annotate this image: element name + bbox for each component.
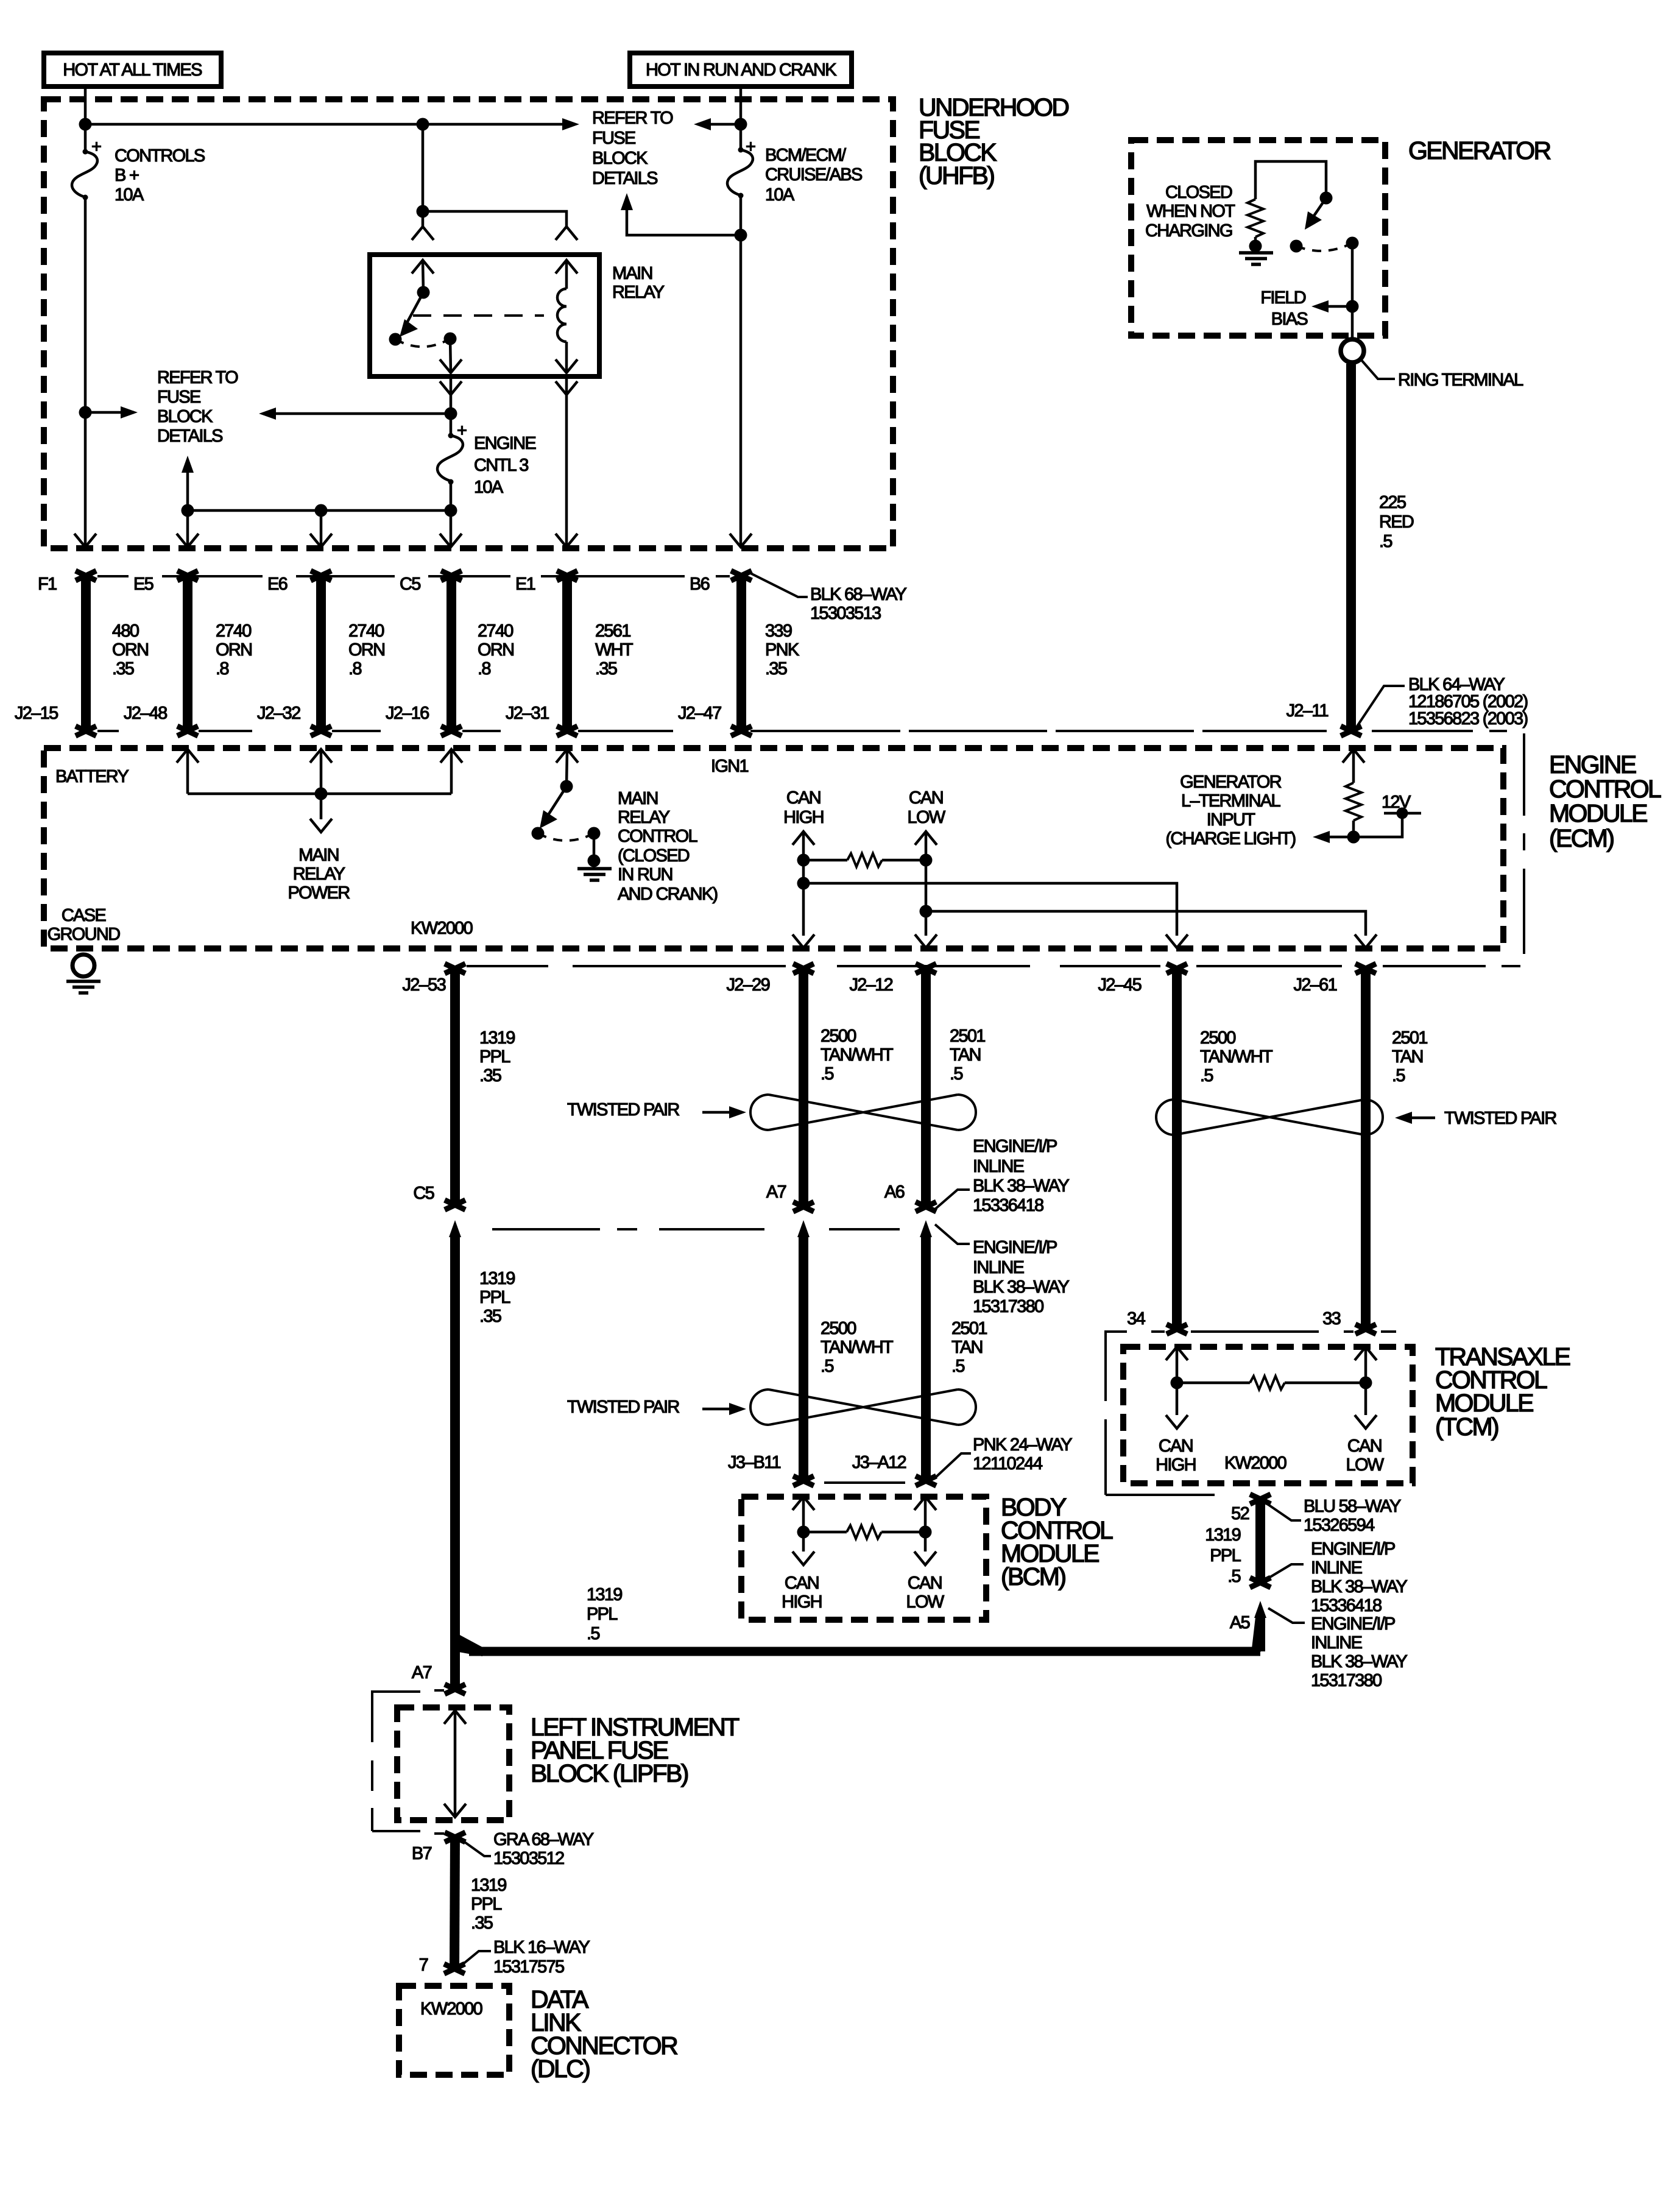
svg-text:.5: .5 — [1227, 1567, 1240, 1586]
wire bus y204 to right arrow — [85, 123, 563, 126]
svg-text:J2–48: J2–48 — [124, 704, 167, 723]
svg-text:12110244: 12110244 — [973, 1454, 1043, 1474]
svg-text:DETAILS: DETAILS — [157, 426, 223, 446]
termination resistor ECM — [803, 853, 926, 867]
svg-text:TAN/WHT: TAN/WHT — [821, 1045, 894, 1065]
main relay control label — [618, 789, 717, 904]
svg-text:339: 339 — [765, 621, 792, 641]
svg-text:A6: A6 — [884, 1182, 905, 1202]
svg-text:E1: E1 — [515, 574, 535, 594]
refer to fuse block details text (top) — [592, 108, 673, 188]
svg-text:GROUND: GROUND — [48, 925, 120, 944]
svg-text:BLK 68–WAY: BLK 68–WAY — [810, 585, 906, 604]
svg-text:J2–47: J2–47 — [678, 704, 721, 723]
relay pin chevrons bottom — [440, 359, 462, 373]
svg-text:TAN/WHT: TAN/WHT — [1200, 1047, 1273, 1067]
svg-text:2740: 2740 — [216, 621, 251, 641]
node relay output — [445, 408, 457, 420]
connector bar B6/J2-47 — [731, 571, 752, 736]
svg-text:PPL: PPL — [479, 1288, 510, 1307]
svg-text:POWER: POWER — [288, 883, 350, 903]
connector X A7 — [445, 1684, 465, 1694]
svg-text:1319: 1319 — [471, 1876, 506, 1895]
connector label PNK 24-WAY 12110244 — [934, 1435, 1072, 1479]
node bus junction — [315, 788, 328, 800]
wire C5 exit — [450, 510, 453, 547]
BCM down chevrons — [792, 1552, 814, 1565]
BCM CAN stems — [803, 1497, 925, 1552]
svg-text:BLOCK (LIPFB): BLOCK (LIPFB) — [531, 1759, 688, 1787]
svg-text:.35: .35 — [595, 659, 617, 679]
wire below resistor — [1352, 821, 1355, 837]
svg-text:225: 225 — [1379, 493, 1406, 512]
svg-text:.8: .8 — [478, 659, 490, 679]
BCM CAN chevrons — [792, 1497, 814, 1510]
svg-text:A7: A7 — [766, 1182, 786, 1202]
svg-text:ORN: ORN — [216, 640, 252, 660]
relay contact dot common — [444, 333, 457, 345]
TCM bracket — [1106, 1332, 1215, 1495]
svg-text:IN RUN: IN RUN — [618, 865, 672, 884]
svg-text:ORN: ORN — [478, 640, 514, 660]
svg-text:TWISTED PAIR: TWISTED PAIR — [1444, 1109, 1556, 1128]
svg-text:AND CRANK): AND CRANK) — [618, 884, 717, 904]
svg-text:J2–29: J2–29 — [726, 975, 769, 995]
BCM CAN LOW label — [906, 1573, 945, 1612]
wire label 1319 PPL .35 (lower) — [479, 1269, 515, 1326]
svg-text:FIELD: FIELD — [1260, 288, 1305, 308]
connector bar J2-12 — [916, 964, 936, 1212]
UHFB label — [919, 93, 1068, 189]
svg-text:J2–45: J2–45 — [1098, 975, 1141, 995]
connector label ENGINE/I/P INLINE BLK 38-WAY 15317380 — [935, 1224, 1069, 1316]
leader BLK 64-WAY — [1357, 686, 1405, 726]
svg-text:CLOSED: CLOSED — [1165, 183, 1232, 202]
svg-text:15326594: 15326594 — [1304, 1516, 1375, 1535]
svg-text:15356823 (2003): 15356823 (2003) — [1408, 709, 1527, 729]
svg-text:CONTROLS: CONTROLS — [115, 146, 205, 166]
wire label 1319 PPL .5 (52) — [1205, 1525, 1241, 1586]
case ground label — [48, 906, 120, 944]
generator switch blade arrow — [1309, 198, 1326, 223]
svg-text:A5: A5 — [1230, 1613, 1250, 1633]
CAN HIGH chevron up — [792, 831, 814, 845]
connector label GRA 68-WAY 15303512 — [463, 1830, 594, 1868]
svg-text:TWISTED PAIR: TWISTED PAIR — [567, 1397, 679, 1417]
arrow to fuse block details (left, from BCM feed) — [694, 118, 711, 130]
TCM CAN LOW label — [1346, 1436, 1385, 1475]
svg-text:ENGINE/I/P: ENGINE/I/P — [1311, 1539, 1395, 1559]
inline connector arrow A6 — [916, 1220, 936, 1486]
IGN1 input chevron — [556, 749, 578, 763]
twisted pair symbol 3 — [750, 1389, 976, 1425]
svg-text:FUSE: FUSE — [157, 387, 201, 407]
TCM CAN stems — [1177, 1347, 1366, 1415]
svg-text:PPL: PPL — [1210, 1546, 1241, 1566]
svg-text:ORN: ORN — [112, 640, 148, 660]
L-terminal resistor — [1346, 783, 1361, 821]
wire to main relay feed — [422, 124, 425, 227]
svg-text:KW2000: KW2000 — [420, 1999, 482, 2019]
LIPFB internal arrow — [444, 1710, 466, 1817]
TCM label — [1435, 1343, 1570, 1441]
svg-text:REFER TO: REFER TO — [157, 368, 238, 387]
svg-text:DETAILS: DETAILS — [592, 169, 658, 188]
svg-text:J2–31: J2–31 — [506, 704, 549, 723]
wire label 2501 TAN .5 — [950, 1026, 985, 1084]
inline connector arrow C5/A7 wire — [449, 1220, 461, 1689]
svg-text:CHARGING: CHARGING — [1145, 221, 1232, 241]
svg-text:.5: .5 — [950, 1064, 962, 1084]
svg-text:.35: .35 — [479, 1066, 501, 1086]
leader BLK 68-WAY — [749, 573, 808, 597]
field bias junction dot — [1346, 300, 1359, 313]
svg-text:(UHFB): (UHFB) — [919, 161, 994, 189]
svg-text:.5: .5 — [1200, 1066, 1213, 1086]
svg-text:INLINE: INLINE — [1311, 1558, 1363, 1578]
charge light arrow — [1317, 836, 1354, 839]
twisted pair symbol 2 (right) — [1156, 1100, 1383, 1135]
svg-text:INLINE: INLINE — [1311, 1633, 1363, 1653]
J2-61 exit chevron — [1355, 934, 1377, 948]
svg-text:MAIN: MAIN — [618, 789, 658, 808]
generator ground — [1239, 253, 1273, 264]
data link connector DLC dashed box — [399, 1986, 509, 2075]
svg-text:15303512: 15303512 — [493, 1849, 564, 1868]
svg-text:J2–16: J2–16 — [386, 704, 429, 723]
node bus mid — [315, 504, 328, 517]
svg-text:C5: C5 — [400, 574, 420, 594]
generator switch contact dot — [1290, 240, 1303, 253]
wire label 1319 PPL .35 — [479, 1028, 515, 1086]
wire E6 exit — [320, 510, 323, 547]
relay switch input stem — [423, 260, 423, 292]
svg-text:15303513: 15303513 — [810, 604, 881, 623]
wire label 2561 WHT .35 — [595, 621, 634, 679]
connector bar 52 — [1250, 1494, 1271, 1587]
svg-text:INPUT: INPUT — [1207, 810, 1255, 830]
svg-text:CAN: CAN — [1159, 1436, 1193, 1456]
svg-text:ENGINE/I/P: ENGINE/I/P — [973, 1137, 1057, 1156]
svg-text:1319: 1319 — [479, 1028, 515, 1048]
main relay power label — [288, 846, 350, 903]
field bias label — [1260, 288, 1308, 329]
svg-text:15317575: 15317575 — [493, 1957, 564, 1977]
wire coil to E1 — [565, 376, 568, 547]
svg-text:GENERATOR: GENERATOR — [1180, 772, 1281, 792]
connector bar C5/J2-16 — [441, 571, 462, 736]
battery bus wires — [188, 749, 451, 819]
CAN LOW chevron up — [915, 831, 937, 845]
L-terminal stem — [1352, 749, 1355, 783]
connector bar E6/J2-32 — [311, 571, 331, 736]
svg-text:HIGH: HIGH — [783, 808, 824, 827]
svg-text:INLINE: INLINE — [973, 1258, 1025, 1277]
node ign feed junction — [735, 118, 747, 131]
IGN1 switch pivot dot — [560, 780, 573, 793]
svg-text:+: + — [91, 137, 101, 157]
J2-45 exit chevron — [1166, 934, 1188, 948]
arrow up to refer text — [621, 193, 633, 210]
generator switch dot top — [1320, 192, 1333, 205]
svg-text:KW2000: KW2000 — [1224, 1453, 1286, 1473]
fuse BCM/ECM/CRUISE/ABS 10A — [727, 137, 755, 199]
LIPFB bracket — [372, 1692, 420, 1831]
svg-text:15317380: 15317380 — [1311, 1671, 1382, 1690]
TCM down chevrons — [1166, 1415, 1188, 1428]
ground node dot — [588, 855, 601, 867]
ring terminal leader — [1361, 359, 1395, 379]
svg-text:12V: 12V — [1382, 793, 1411, 812]
svg-text:.35: .35 — [471, 1913, 493, 1933]
svg-text:PPL: PPL — [471, 1894, 502, 1914]
svg-text:CNTL 3: CNTL 3 — [474, 456, 528, 475]
wire label 1319 PPL .5 (horizontal) — [587, 1585, 622, 1643]
connector bar J2-61 — [1355, 964, 1376, 1334]
main relay label — [612, 264, 665, 302]
relay switch blade arrow — [403, 292, 423, 330]
BCM node dots — [797, 1526, 810, 1539]
fuse CONTROLS B+ 10A — [72, 137, 101, 200]
svg-text:FUSE: FUSE — [592, 129, 636, 148]
case ground symbol — [66, 955, 101, 993]
svg-text:15317380: 15317380 — [973, 1297, 1043, 1316]
svg-text:2501: 2501 — [950, 1026, 985, 1046]
svg-text:IGN1: IGN1 — [711, 757, 748, 776]
battery bus chevrons into ECM — [177, 749, 199, 763]
svg-text:ORN: ORN — [348, 640, 384, 660]
svg-text:(TCM): (TCM) — [1435, 1413, 1498, 1441]
connector label BLK 68-WAY 15303513 — [810, 585, 906, 623]
svg-text:480: 480 — [112, 621, 139, 641]
body control module BCM dashed box — [741, 1497, 986, 1620]
svg-text:BLK 38–WAY: BLK 38–WAY — [973, 1176, 1069, 1196]
connector bar E1/J2-31 — [557, 571, 577, 736]
ECM label — [1549, 750, 1661, 852]
svg-text:ENGINE: ENGINE — [474, 434, 536, 453]
twisted pair label 1 — [567, 1100, 746, 1120]
node bus left — [182, 504, 194, 517]
left instrument panel fuse block dashed box — [397, 1707, 509, 1820]
svg-text:PNK 24–WAY: PNK 24–WAY — [973, 1435, 1072, 1455]
svg-text:HOT AT ALL TIMES: HOT AT ALL TIMES — [63, 60, 202, 80]
svg-text:1319: 1319 — [1205, 1525, 1240, 1545]
BCM CAN HIGH label — [782, 1573, 822, 1612]
svg-text:2500: 2500 — [1200, 1028, 1235, 1048]
svg-text:1319: 1319 — [479, 1269, 515, 1288]
connector face line row2 top — [467, 965, 1520, 967]
wire below BCM fuse — [739, 196, 743, 547]
relay actuation dashed link — [413, 314, 544, 317]
svg-text:HOT IN RUN AND CRANK: HOT IN RUN AND CRANK — [646, 60, 837, 80]
wire label 480 ORN .35 — [112, 621, 148, 679]
transaxle control module TCM dashed box — [1123, 1347, 1413, 1483]
wire E5 exit — [186, 510, 189, 547]
connector label BLK 16-WAY 15317575 — [462, 1938, 590, 1977]
ring terminal — [1341, 339, 1364, 362]
svg-text:2500: 2500 — [821, 1026, 856, 1046]
connector chevrons above main relay — [412, 227, 434, 240]
BCM label — [1001, 1493, 1113, 1590]
relay switch pivot dot — [417, 286, 430, 299]
wire label 2740 ORN .8 (E6) — [348, 621, 384, 679]
svg-text:33: 33 — [1322, 1309, 1340, 1329]
svg-text:ENGINE/I/P: ENGINE/I/P — [1311, 1614, 1395, 1634]
svg-text:J3–B11: J3–B11 — [728, 1453, 781, 1472]
wire — [697, 123, 741, 126]
wire to ground — [1254, 237, 1257, 246]
svg-text:TAN: TAN — [950, 1045, 981, 1065]
svg-text:(CHARGE LIGHT): (CHARGE LIGHT) — [1165, 829, 1295, 849]
svg-text:J2–53: J2–53 — [402, 975, 445, 995]
connector face line bottom row1 — [97, 730, 1507, 732]
wire label 225 RED .5 — [1379, 493, 1414, 551]
node at y386 — [735, 229, 747, 242]
svg-text:A7: A7 — [412, 1663, 432, 1682]
svg-text:F1: F1 — [38, 574, 57, 594]
CAN HIGH exit chevron — [792, 934, 814, 948]
engine control module ECM dashed box — [44, 748, 1503, 948]
svg-text:10A: 10A — [474, 478, 504, 497]
wire label 2740 ORN .8 (E5) — [216, 621, 252, 679]
connector bar J2-45 — [1166, 964, 1187, 1334]
svg-text:E5: E5 — [133, 574, 154, 594]
svg-text:2501: 2501 — [951, 1319, 987, 1338]
svg-text:2561: 2561 — [595, 621, 630, 641]
generator L-terminal input label — [1165, 772, 1295, 849]
connector bar J2-53 — [445, 964, 465, 1210]
svg-text:BIAS: BIAS — [1271, 309, 1308, 329]
svg-text:.5: .5 — [951, 1357, 964, 1376]
connector face line A7 — [434, 1689, 444, 1692]
relay pin chevron top right — [556, 260, 577, 274]
twisted pair label 2 — [1395, 1109, 1556, 1128]
connector bar E5/J2-48 — [177, 571, 198, 736]
svg-text:.35: .35 — [765, 659, 787, 679]
CAN HIGH wire — [802, 831, 805, 936]
connector X B7 — [445, 1832, 465, 1842]
CAN HIGH link wire to J2-45 — [803, 883, 1177, 936]
svg-text:BLK 38–WAY: BLK 38–WAY — [1311, 1577, 1407, 1597]
svg-text:TAN/WHT: TAN/WHT — [821, 1338, 894, 1357]
node — [417, 118, 429, 131]
main relay power arrow — [310, 819, 332, 832]
arrow up to refer text from bus — [186, 471, 189, 510]
svg-text:MAIN: MAIN — [298, 846, 339, 865]
hot in run and crank box — [630, 53, 852, 86]
arrow left to refer text (relay output) — [263, 412, 451, 415]
inline connector face line — [492, 1228, 900, 1230]
inline connector arrow A7 — [793, 1220, 814, 1486]
connector label BLK 64-WAY 12186705 15356823 — [1408, 675, 1527, 729]
arrow to fuse block details (right) — [562, 118, 579, 130]
twisted pair symbol 1 — [750, 1095, 976, 1130]
svg-text:J2–61: J2–61 — [1293, 975, 1336, 995]
svg-text:L–TERMINAL: L–TERMINAL — [1181, 791, 1280, 811]
wire label 1319 PPL .35 (DLC) — [471, 1876, 506, 1933]
svg-text:10A: 10A — [765, 185, 795, 205]
ground symbol — [577, 869, 612, 880]
svg-text:MAIN: MAIN — [612, 264, 652, 283]
svg-text:.8: .8 — [348, 659, 361, 679]
wire label 2740 ORN .8 (C5) — [478, 621, 514, 679]
svg-text:B6: B6 — [690, 574, 710, 594]
generator ground dot — [1249, 240, 1262, 253]
svg-text:RELAY: RELAY — [618, 808, 670, 827]
svg-text:B +: B + — [115, 166, 139, 185]
svg-text:LOW: LOW — [906, 1592, 945, 1612]
svg-text:BLK 16–WAY: BLK 16–WAY — [493, 1938, 590, 1957]
svg-text:TWISTED PAIR: TWISTED PAIR — [567, 1100, 679, 1120]
closed when not charging label — [1145, 183, 1235, 241]
svg-text:GENERATOR: GENERATOR — [1408, 136, 1551, 164]
svg-text:TAN: TAN — [951, 1338, 983, 1357]
svg-text:BLK 38–WAY: BLK 38–WAY — [973, 1277, 1069, 1297]
svg-text:.5: .5 — [1392, 1066, 1405, 1086]
CAN LOW exit chevron — [915, 934, 937, 948]
svg-text:(BCM): (BCM) — [1001, 1562, 1065, 1590]
svg-text:15336418: 15336418 — [1311, 1596, 1382, 1615]
hot at all times box — [44, 53, 221, 86]
svg-text:.35: .35 — [479, 1307, 501, 1326]
svg-text:LOW: LOW — [1346, 1455, 1385, 1475]
LIPFB label — [531, 1713, 739, 1787]
relay pin chevron top left — [412, 260, 434, 274]
svg-text:CAN: CAN — [1347, 1436, 1382, 1456]
svg-text:J3–A12: J3–A12 — [852, 1453, 906, 1472]
connector X pin 7 — [444, 1964, 465, 1974]
refer to fuse block details text (middle) — [157, 368, 238, 446]
svg-text:E6: E6 — [267, 574, 288, 594]
svg-text:HIGH: HIGH — [782, 1592, 822, 1612]
charge light node dot — [1347, 831, 1360, 844]
svg-text:PPL: PPL — [479, 1047, 510, 1067]
TCM CAN chevrons — [1166, 1347, 1188, 1360]
svg-text:ENGINE/I/P: ENGINE/I/P — [973, 1238, 1057, 1257]
CAN LOW wire — [925, 831, 928, 936]
generator output wire 225 RED — [1346, 364, 1356, 731]
svg-text:J2–32: J2–32 — [257, 704, 300, 723]
CAN LOW node dots — [920, 854, 933, 867]
svg-text:.5: .5 — [821, 1064, 833, 1084]
TCM termination resistor — [1177, 1376, 1366, 1389]
svg-text:.5: .5 — [821, 1357, 833, 1376]
fuse ENGINE CNTL 3 10A — [437, 414, 467, 510]
connector face line B7 — [434, 1832, 444, 1835]
connector label ENGINE/I/P INLINE BLK 38-WAY 15336418 (52) — [1267, 1539, 1407, 1615]
node B+ feed junction — [79, 118, 92, 131]
svg-text:J2–12: J2–12 — [849, 975, 892, 995]
svg-text:RED: RED — [1379, 512, 1414, 532]
svg-text:34: 34 — [1127, 1309, 1145, 1329]
wire elbow to up arrow — [627, 197, 741, 235]
svg-text:TAN: TAN — [1392, 1047, 1423, 1067]
connector bar J2-29 — [793, 964, 814, 1212]
wire from HOT IN RUN AND CRANK — [739, 86, 743, 150]
svg-text:HIGH: HIGH — [1156, 1455, 1196, 1475]
svg-text:15336418: 15336418 — [973, 1196, 1043, 1215]
svg-text:INLINE: INLINE — [973, 1157, 1025, 1176]
wire label 2501 TAN .5 (lower) — [951, 1319, 987, 1376]
svg-text:CAN: CAN — [786, 788, 821, 808]
inline connector arrow A5 — [1254, 1601, 1266, 1651]
svg-text:1319: 1319 — [587, 1585, 622, 1605]
svg-text:(DLC): (DLC) — [531, 2055, 590, 2083]
node bus right — [445, 504, 457, 517]
svg-text:+: + — [457, 421, 467, 440]
L-terminal chevron — [1343, 749, 1364, 763]
svg-text:(ECM): (ECM) — [1549, 824, 1614, 852]
